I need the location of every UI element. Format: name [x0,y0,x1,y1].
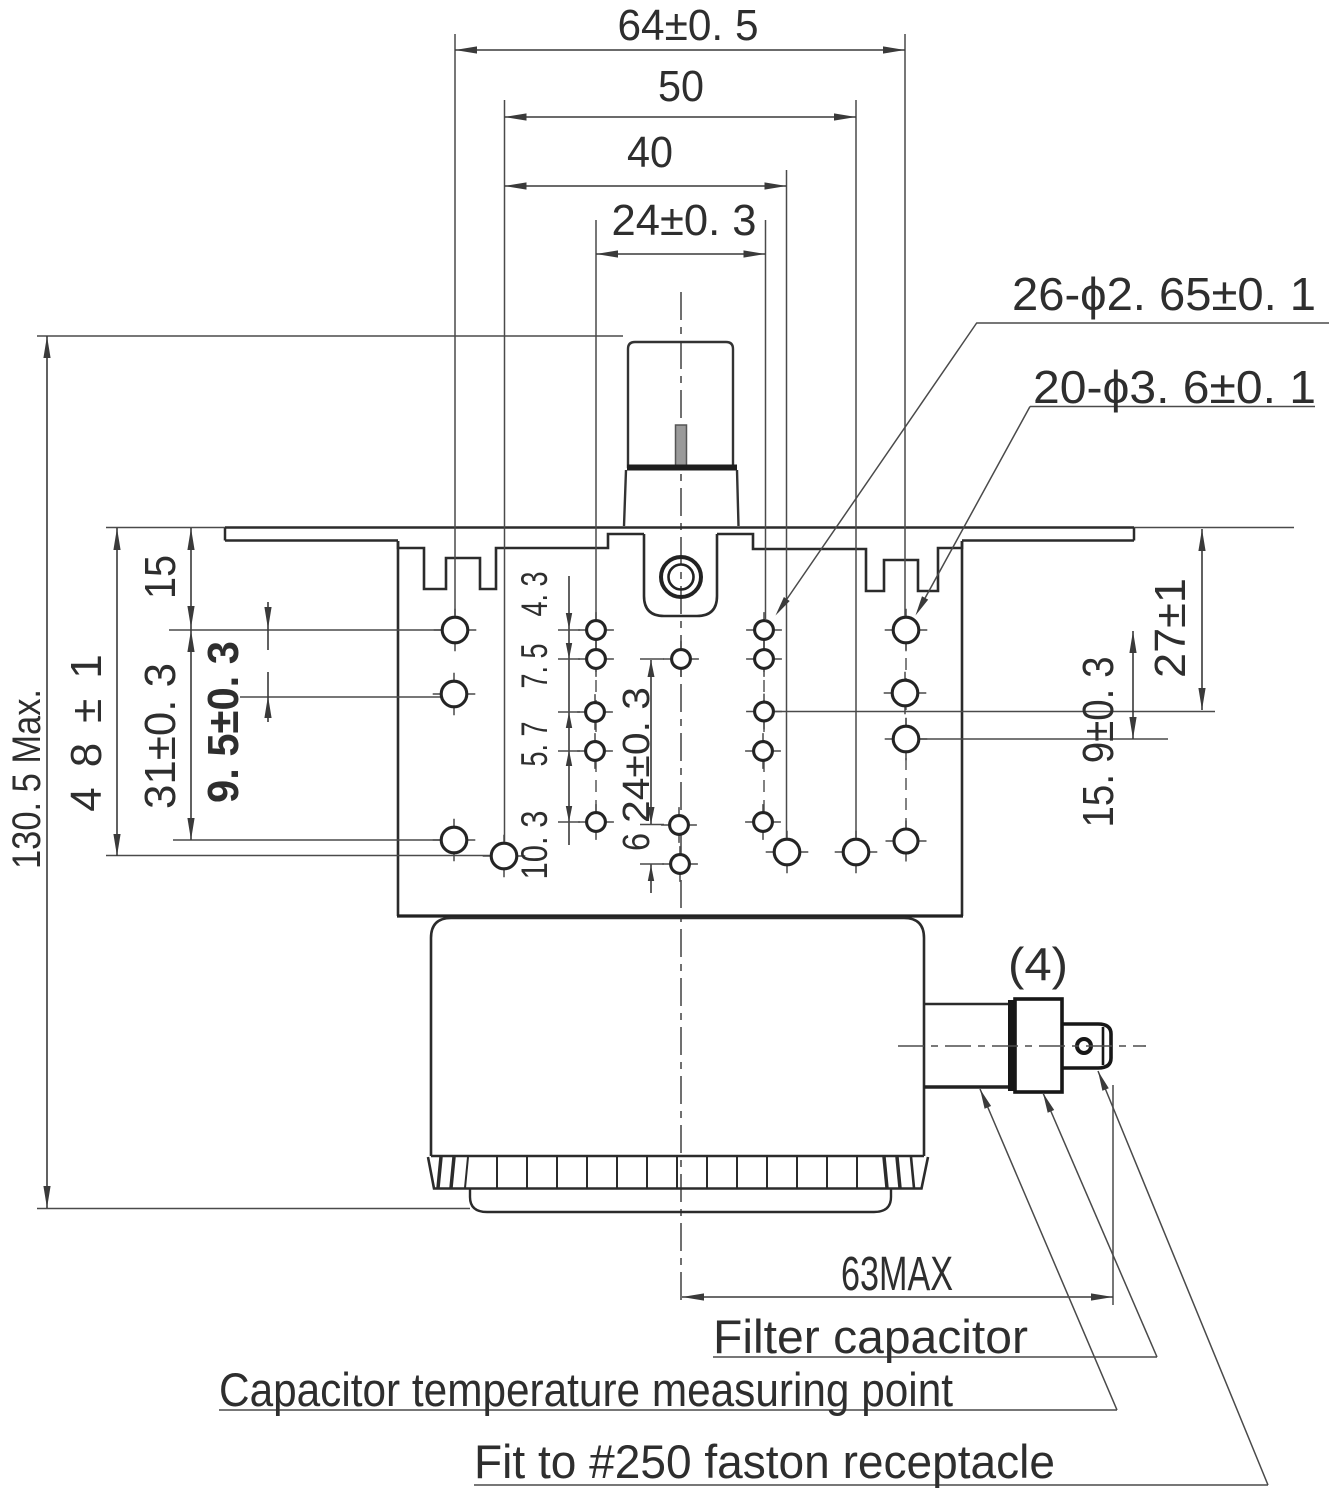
leader capacitor temperature measuring point [980,1089,1117,1410]
50 left ext [504,100,506,842]
hole E1 [746,612,782,648]
cooling fin teeth [428,1157,928,1189]
faston pin [1062,1024,1111,1068]
hole H3 [885,718,928,761]
hole D2 [661,807,697,843]
130.5 Max dimension [37,335,623,337]
hole D3 [662,846,698,882]
hole C4 [577,733,613,769]
hole column centerlines [595,620,597,832]
svg-text:24±0. 3: 24±0. 3 [612,196,757,245]
svg-text:63MAX: 63MAX [841,1248,953,1301]
left flange ref [106,527,225,529]
right flange ref extension [1134,527,1294,529]
hole C1 [578,612,614,648]
label underlines [713,1356,1157,1358]
row 697 left ref [240,696,455,698]
svg-text:5. 7: 5. 7 [514,722,555,767]
svg-text:Fit to #250 faston receptacle: Fit to #250 faston receptacle [474,1435,1055,1488]
hole H4 [886,821,927,862]
hole E2 [746,641,782,677]
cap base frustum [624,470,739,526]
hole C2 [578,641,614,677]
row 712 right ref [764,711,1215,713]
svg-text:9. 5±0. 3: 9. 5±0. 3 [199,641,248,803]
filter box [431,918,924,1156]
cap heavy shoulder line [627,465,737,471]
center tab with hex boss [644,534,717,616]
svg-text:40: 40 [627,128,673,177]
64 right ext [904,34,906,616]
svg-text:4. 3: 4. 3 [514,572,555,617]
50 right ext [855,100,857,838]
svg-text:20-ϕ3. 6±0. 1: 20-ϕ3. 6±0. 1 [1033,361,1316,413]
svg-text:Capacitor temperature measurin: Capacitor temperature measuring point [219,1363,953,1416]
row 856 left ref [106,855,504,857]
svg-text:130. 5 Max.: 130. 5 Max. [5,689,49,869]
pin hole [1077,1039,1091,1053]
svg-text:6: 6 [616,833,658,851]
hole A2 [433,673,476,716]
flange plate [225,528,1134,541]
body bottom heavy line [397,914,963,917]
dimension 64±0.5 [455,49,905,51]
24 right ext [765,220,767,619]
svg-text:50: 50 [658,62,704,111]
hole E5 [745,804,781,840]
svg-text:64±0. 5: 64±0. 5 [618,1,759,50]
hole H1 [885,609,928,652]
svg-text:7. 5: 7. 5 [514,644,555,689]
middle chain dimension 4.3/7.5/5.7/10.3 [568,576,570,845]
hex boss inner ring [669,565,694,590]
15.9±0.3 dimension [1132,631,1134,739]
hole C5 [578,804,614,840]
leader faston receptacle [1098,1071,1268,1485]
leader 26-phi2.65 [778,323,977,613]
hole A3 [433,819,476,862]
hole G1 [835,831,878,874]
svg-text:15. 9±0. 3: 15. 9±0. 3 [1074,657,1123,828]
capacitor block [1015,999,1062,1092]
row 630 left ref [169,629,455,631]
leader 20-phi3.6 [918,407,1030,612]
24 left ext [595,220,597,619]
svg-text:26-ϕ2. 65±0. 1: 26-ϕ2. 65±0. 1 [1012,268,1316,320]
svg-text:48±1: 48±1 [62,634,111,812]
svg-text:(4): (4) [1008,938,1068,990]
antenna rod [676,425,687,466]
svg-text:10. 3: 10. 3 [514,811,555,880]
filter capacitor stub [924,1003,1009,1006]
hole F1 [766,831,809,874]
antenna cap cylinder [628,342,733,468]
15 / 31±0.3 chain dimension [190,528,192,840]
hex boss outer ring [661,557,701,597]
svg-text:Filter capacitor: Filter capacitor [713,1310,1028,1363]
40 right ext [786,170,788,838]
9.5±0.3 dimension (outside arrows) [267,602,269,722]
dimension 24±0.3 [596,253,766,255]
heavy divider [1008,1000,1015,1091]
hole E4 [745,733,781,769]
hole A1 [434,609,477,652]
hole E3 [746,694,782,730]
connector centerline [898,1045,1146,1047]
svg-text:15: 15 [136,555,185,599]
hole D1 [663,641,699,677]
middle 24±0.3 dimension [650,660,652,893]
row 739 right ref [906,738,1168,740]
hole H2 [884,672,927,715]
svg-text:27±1: 27±1 [1146,578,1195,678]
bottom cap [470,1188,891,1212]
63MAX dimension [1112,1085,1114,1305]
leader filter capacitor [1043,1093,1157,1357]
hole C3 [577,694,613,730]
svg-text:31±0. 3: 31±0. 3 [136,663,185,809]
dimension 40 [505,185,787,187]
svg-text:24±0. 3: 24±0. 3 [616,687,658,823]
centerline vertical axis [680,292,682,1305]
dimension 50 [505,116,857,118]
64 left ext [454,34,456,616]
row 840 left ref [173,839,455,841]
hole B1 [483,835,526,878]
27±1 dimension [1201,529,1203,710]
48±1 dimension [116,528,118,856]
body outline with castellated top [398,534,962,591]
